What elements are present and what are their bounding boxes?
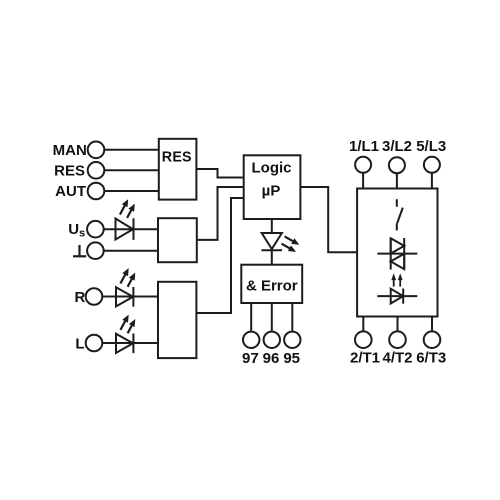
svg-text:95: 95 [283, 350, 300, 367]
wire to terminal 95 [291, 303, 293, 331]
LED indicator on L line [116, 315, 135, 354]
svg-text:RES: RES [54, 162, 85, 179]
wire RES block to Logic [196, 169, 243, 178]
svg-text:Logic: Logic [252, 160, 292, 177]
wire L to control block [103, 342, 159, 344]
block power stage [357, 189, 437, 317]
terminal Us circle [87, 221, 104, 238]
terminal L circle [86, 335, 103, 352]
svg-text:1/L1: 1/L1 [349, 138, 379, 155]
svg-text:3/L2: 3/L2 [382, 138, 412, 155]
svg-text:96: 96 [263, 350, 280, 367]
wire power block to 4/T2 [397, 317, 399, 332]
wire R to control block [103, 296, 159, 298]
wire control block to Logic [196, 198, 243, 313]
optocoupler light arrows [391, 273, 402, 286]
wire 3/L2 to power block [396, 174, 398, 189]
terminal R circle [86, 288, 103, 305]
wire RES to RES block [105, 169, 159, 171]
terminal 2/T1 circle [355, 331, 372, 348]
switch contact [397, 199, 403, 230]
terminal earth label [73, 245, 86, 256]
wire power block to 6/T3 [431, 317, 433, 332]
block & Error [241, 265, 302, 303]
svg-text:µP: µP [262, 182, 281, 199]
svg-text:MAN: MAN [53, 142, 87, 159]
terminal 3/L2 circle [389, 157, 405, 173]
terminal earth circle [87, 242, 104, 259]
wire power block to 2/T1 [362, 317, 364, 332]
terminal 97 circle [243, 332, 259, 348]
svg-text:& Error: & Error [246, 277, 298, 294]
triac [377, 238, 417, 270]
terminal MAN circle [88, 142, 105, 159]
svg-text:L: L [75, 336, 84, 353]
wire 1/L1 to power block [362, 173, 364, 188]
LED indicator on Us line [116, 199, 135, 240]
terminal 5/L3 circle [424, 157, 440, 173]
wire Us to supply block [104, 228, 158, 230]
terminal 6/T3 circle [424, 331, 441, 348]
wire supply block to Logic [197, 187, 244, 240]
wire status LED to Error block [271, 250, 273, 265]
svg-text:4/T2: 4/T2 [382, 350, 412, 367]
status LED [261, 233, 299, 252]
terminal AUT circle [88, 183, 105, 200]
terminal RES circle [88, 162, 105, 179]
svg-text:97: 97 [242, 350, 259, 367]
wire MAN to RES block [105, 149, 159, 151]
terminal 4/T2 circle [389, 331, 406, 348]
LED indicator on R line [116, 268, 135, 307]
block supply (unlabeled) [158, 218, 197, 262]
block RES [159, 139, 197, 200]
svg-text:RES: RES [162, 150, 192, 166]
wire earth to supply block [104, 250, 158, 252]
svg-text:R: R [74, 289, 85, 306]
wire 5/L3 to power block [431, 173, 433, 188]
photo diode [377, 289, 417, 304]
svg-text:5/L3: 5/L3 [416, 138, 446, 155]
wire Logic to power block [300, 187, 357, 252]
block Logic uP [244, 155, 301, 219]
wire to terminal 96 [271, 303, 273, 331]
wire Logic to status LED [271, 219, 273, 233]
svg-text:AUT: AUT [55, 183, 86, 200]
svg-text:2/T1: 2/T1 [350, 350, 380, 367]
svg-text:6/T3: 6/T3 [416, 350, 446, 367]
terminal 95 circle [284, 332, 300, 348]
terminal 96 circle [264, 332, 280, 348]
terminal 1/L1 circle [355, 157, 371, 173]
block control (unlabeled) [158, 282, 196, 358]
wire AUT to RES block [105, 190, 159, 192]
wire to terminal 97 [250, 303, 252, 331]
